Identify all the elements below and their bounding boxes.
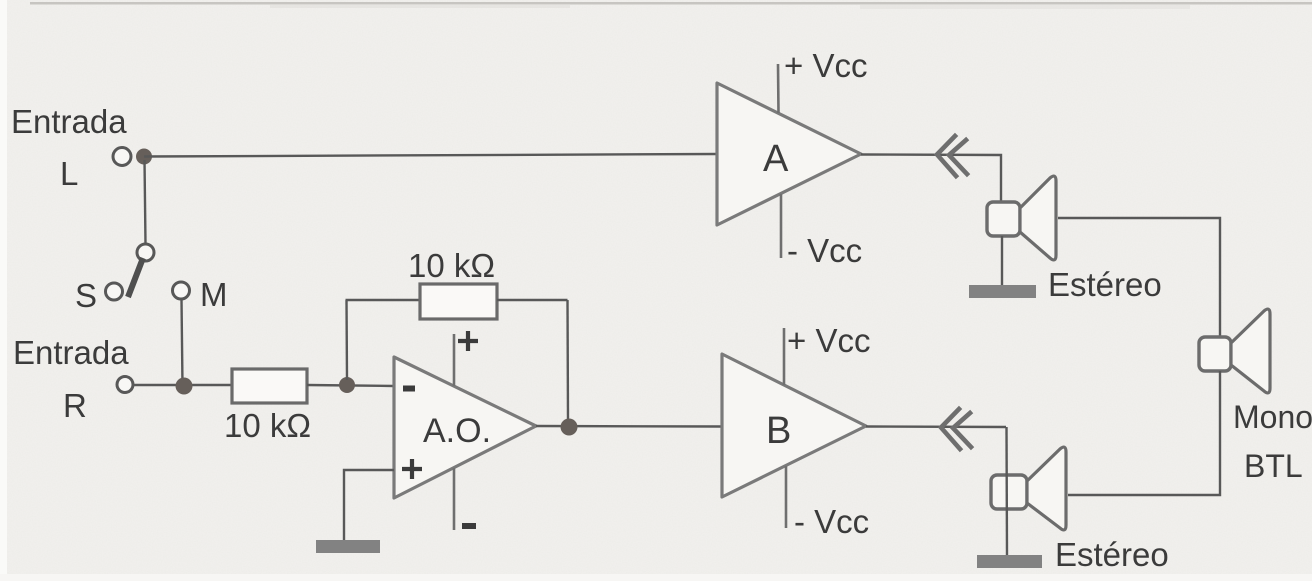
terminal M (open circle) [173, 282, 190, 299]
top scan edge line [30, 2, 1312, 5]
wire LS1 cone to mono bus [1058, 218, 1220, 338]
wire feedback right horizontal [497, 299, 568, 301]
amplifier B triangle [722, 354, 866, 497]
svg-text:+ Vcc: + Vcc [787, 322, 870, 359]
svg-text:A: A [763, 138, 789, 180]
ground (top speaker) [969, 285, 1036, 298]
wire amp A output [861, 155, 1001, 204]
svg-text:10 kΩ: 10 kΩ [224, 407, 311, 444]
op-amp plus input label [402, 459, 422, 479]
svg-text:M: M [200, 276, 228, 313]
ground (bottom speaker) [977, 555, 1042, 568]
svg-text:S: S [75, 277, 97, 314]
speaker LS2 box [991, 475, 1027, 509]
speaker LS1 box [987, 202, 1020, 236]
op-amp V- supply line [453, 468, 456, 530]
svg-text:BTL: BTL [1244, 448, 1303, 484]
wire M down to R line [182, 299, 183, 386]
svg-text:R: R [63, 387, 87, 424]
wire feedback left vertical [345, 300, 348, 380]
resistor R2 10k (feedback) [420, 284, 497, 319]
amplifier A triangle [717, 83, 861, 225]
wire feedback right vertical down to output node [566, 300, 569, 422]
wire L node down to switch pivot [145, 160, 146, 244]
wire L to amp A [144, 154, 717, 157]
op-amp V+ plus label [458, 331, 478, 351]
connector chevron (B output) [941, 409, 971, 449]
wire non-inverting input to ground [344, 470, 394, 541]
wire feedback left horizontal [346, 299, 421, 301]
terminal R (open circle) [117, 377, 133, 393]
wire resistor to inverting node [307, 385, 394, 386]
svg-text:Estéreo: Estéreo [1048, 266, 1162, 303]
speaker LS2 cone [1027, 447, 1066, 530]
svg-text:- Vcc: - Vcc [794, 503, 869, 540]
left white margin [0, 0, 7, 581]
wire mono bus down and left [1068, 371, 1220, 495]
bottom light strip [0, 574, 1312, 581]
wire speaker LS2 through box to ground [1005, 427, 1008, 556]
node inverting input (solid dot) [339, 377, 355, 393]
wire op-amp output [536, 425, 722, 428]
switch pivot circle [137, 244, 154, 261]
wire speaker LS1 to ground [1001, 236, 1003, 286]
svg-text:B: B [766, 410, 791, 452]
op-amp V+ supply line [453, 334, 456, 386]
terminal L (open circle) [113, 148, 131, 166]
op-amp V- minus label [462, 523, 476, 529]
svg-text:Estéreo: Estéreo [1055, 536, 1169, 573]
op-amp U1 triangle [394, 357, 536, 498]
wire R to resistor [133, 384, 232, 386]
node op-amp output (solid dot) [561, 419, 578, 436]
svg-text:- Vcc: - Vcc [787, 232, 862, 269]
amp A V- supply line [780, 194, 783, 258]
speaker LS3 cone [1231, 309, 1270, 393]
speaker LS1 cone [1020, 176, 1056, 260]
svg-text:Mono: Mono [1233, 399, 1312, 435]
op-amp minus input label [403, 386, 415, 392]
connector chevron (A output) [937, 136, 967, 176]
svg-text:L: L [60, 155, 78, 192]
svg-text:A.O.: A.O. [423, 412, 491, 450]
svg-text:10 kΩ: 10 kΩ [408, 247, 495, 284]
ground (op-amp + input) [316, 540, 380, 553]
speaker LS3 box [1199, 337, 1231, 371]
svg-text:+ Vcc: + Vcc [784, 47, 867, 84]
node R/M junction (solid dot) [176, 378, 193, 395]
svg-text:Entrada: Entrada [11, 103, 127, 140]
amp A V+ supply line [777, 64, 780, 113]
resistor R1 10k (input) [232, 369, 307, 403]
amp B V- supply line [785, 466, 788, 528]
wire amp B output [866, 425, 1006, 428]
switch S lever [128, 258, 143, 297]
amp B V+ supply line [783, 328, 786, 385]
terminal S (open circle) [106, 283, 123, 300]
svg-text:Entrada: Entrada [13, 334, 129, 371]
node L (solid dot) [136, 149, 152, 165]
